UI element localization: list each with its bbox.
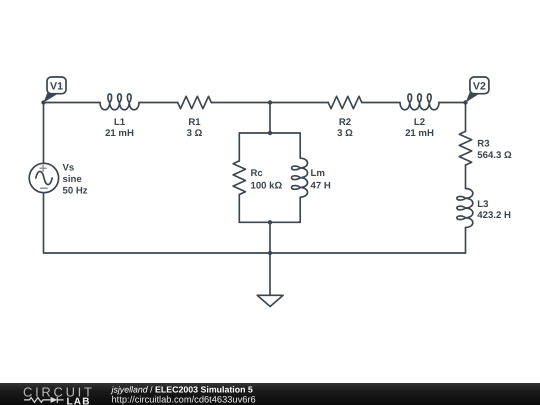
svg-text:L2: L2 [414, 117, 425, 128]
svg-text:47 H: 47 H [311, 180, 331, 191]
svg-text:Rc: Rc [251, 168, 264, 179]
svg-text:564.3 Ω: 564.3 Ω [477, 150, 512, 161]
svg-text:R3: R3 [477, 139, 489, 150]
svg-text:100 kΩ: 100 kΩ [251, 180, 283, 191]
svg-text:423.2 H: 423.2 H [477, 210, 511, 221]
svg-text:L1: L1 [114, 117, 126, 128]
svg-text:sine: sine [63, 174, 82, 185]
svg-text:3 Ω: 3 Ω [337, 128, 353, 139]
svg-text:21 mH: 21 mH [105, 128, 134, 139]
svg-text:R2: R2 [339, 117, 351, 128]
svg-text:V2: V2 [473, 81, 486, 93]
svg-text:L3: L3 [477, 199, 488, 210]
svg-text:50 Hz: 50 Hz [63, 185, 88, 196]
svg-text:LAB: LAB [67, 396, 91, 405]
svg-text:21 mH: 21 mH [405, 128, 434, 139]
svg-text:Vs: Vs [63, 162, 75, 173]
svg-text:R1: R1 [188, 117, 201, 128]
svg-text:jsjyelland / ELEC2003 Simulati: jsjyelland / ELEC2003 Simulation 5 [111, 385, 253, 395]
svg-text:3 Ω: 3 Ω [187, 128, 203, 139]
svg-text:Lm: Lm [311, 168, 325, 179]
svg-text:http://circuitlab.com/cd6t4633: http://circuitlab.com/cd6t4633uv6r6 [112, 395, 256, 405]
svg-text:V1: V1 [50, 81, 63, 93]
